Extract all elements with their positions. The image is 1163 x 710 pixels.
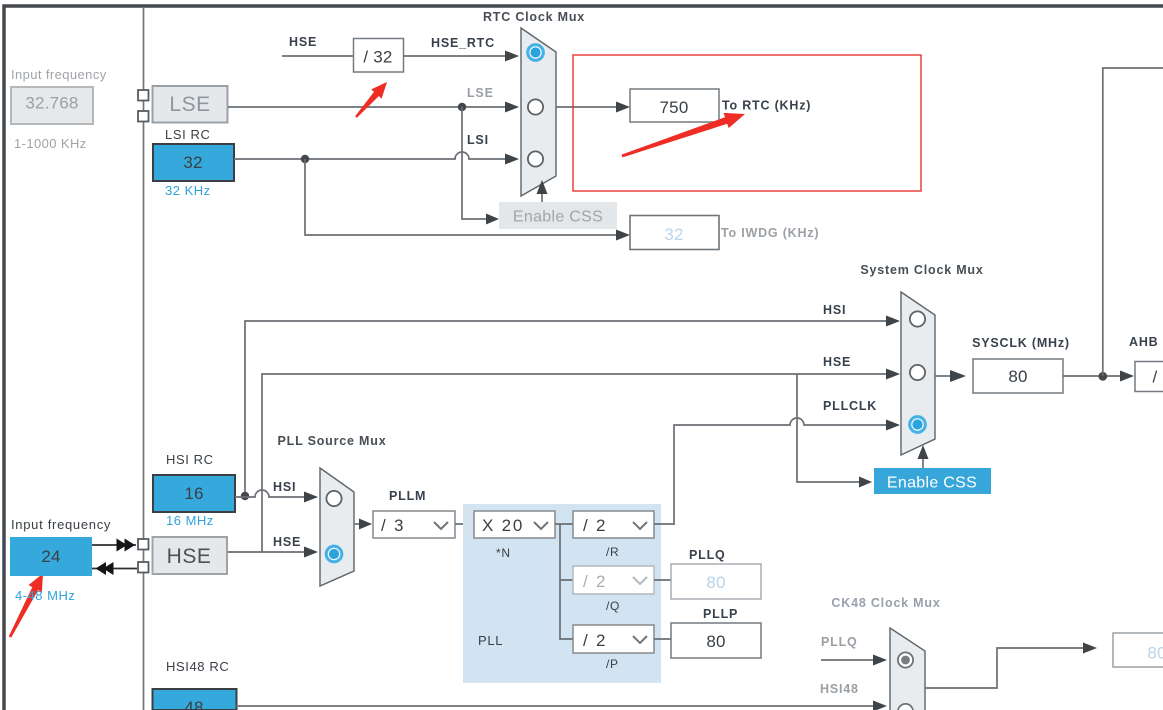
wire SYSCLK branch to top right bbox=[1103, 68, 1163, 376]
wire HSE to System Clock Mux bbox=[262, 369, 900, 553]
box input frequency 32.768 bbox=[11, 87, 93, 124]
svg-text:HSE: HSE bbox=[289, 35, 317, 49]
svg-text:/ 32: / 32 bbox=[363, 48, 392, 67]
input bus line bbox=[143, 8, 145, 710]
svg-text:/ 3: / 3 bbox=[381, 516, 405, 535]
svg-text:HSI48: HSI48 bbox=[820, 682, 859, 696]
svg-text:SYSCLK (MHz): SYSCLK (MHz) bbox=[972, 336, 1070, 350]
box HSI48 48 bbox=[153, 689, 237, 710]
dropdown PLLM /3 bbox=[373, 511, 455, 538]
svg-text:/ 2: / 2 bbox=[583, 631, 607, 650]
svg-text:Enable CSS: Enable CSS bbox=[513, 209, 603, 226]
box PLLP 80 bbox=[671, 623, 761, 658]
wire PLL mux output bbox=[354, 519, 372, 530]
svg-text:Input frequency: Input frequency bbox=[11, 517, 111, 532]
label System Clock Mux bbox=[860, 263, 983, 277]
box LSI 32 bbox=[153, 144, 234, 181]
label PLLQ (ck48) bbox=[821, 635, 858, 649]
box CK48 output 80 bbox=[1113, 633, 1163, 667]
dropdown /P /2 bbox=[573, 625, 654, 653]
svg-text:X 20: X 20 bbox=[482, 516, 524, 535]
svg-text:/Q: /Q bbox=[606, 599, 620, 613]
wire HSE branch to Enable CSS (blue) bbox=[797, 374, 872, 488]
svg-text:LSI: LSI bbox=[467, 133, 489, 147]
label HSI48 (ck48) bbox=[820, 682, 859, 696]
svg-text:HSI: HSI bbox=[273, 480, 296, 494]
svg-text:4-48 MHz: 4-48 MHz bbox=[15, 588, 75, 603]
wire LSI to RTC mux (with hop) bbox=[234, 152, 519, 165]
wire HSE_RTC to RTC mux bbox=[404, 51, 520, 62]
label SYSCLK (MHz) bbox=[972, 336, 1070, 350]
label AHB bbox=[1129, 335, 1158, 349]
wire CK48 output to 48 box bbox=[925, 643, 1097, 689]
svg-text:/ 2: / 2 bbox=[583, 572, 607, 591]
label Input frequency (LSE) bbox=[11, 67, 107, 82]
label RTC Clock Mux bbox=[483, 10, 585, 24]
wire PLLM to xN bbox=[455, 523, 474, 525]
svg-text:RTC Clock Mux: RTC Clock Mux bbox=[483, 10, 585, 24]
svg-text:80: 80 bbox=[1008, 367, 1027, 386]
svg-text:PLLQ: PLLQ bbox=[689, 548, 726, 562]
label LSE (small gray) bbox=[467, 86, 494, 100]
svg-text:80: 80 bbox=[1147, 644, 1163, 663]
wire LSE branch down to Enable CSS bbox=[462, 107, 499, 225]
wire /P to PLLP box bbox=[654, 638, 671, 640]
annotation red arrow 3 (to 24 box) bbox=[9, 574, 43, 638]
box divider /32 bbox=[354, 39, 404, 73]
label HSI (pll mux) bbox=[273, 480, 296, 494]
label HSI48 RC bbox=[166, 659, 229, 674]
port squares LSE bbox=[138, 90, 149, 122]
button Enable CSS (blue) bbox=[874, 468, 991, 494]
annotation red rectangle bbox=[573, 55, 921, 191]
button Enable CSS (RTC, disabled) bbox=[499, 202, 617, 229]
box SYSCLK 80 bbox=[973, 359, 1063, 393]
svg-text:80: 80 bbox=[706, 632, 725, 651]
label PLLM bbox=[389, 489, 426, 503]
svg-text:LSE: LSE bbox=[467, 86, 494, 100]
wire PLLCLK to System Clock Mux (with hop) bbox=[674, 418, 900, 525]
svg-text:*N: *N bbox=[496, 546, 511, 560]
svg-text:PLLM: PLLM bbox=[389, 489, 426, 503]
dropdown /Q /2 (disabled) bbox=[573, 566, 654, 594]
wire HSI to System Clock Mux bbox=[241, 316, 900, 501]
wire HSI48 to CK48 mux bbox=[236, 701, 887, 710]
wire port to 24 (double arrow left) bbox=[92, 562, 137, 575]
label /P bbox=[606, 657, 619, 671]
mux PLL Source Mux bbox=[320, 468, 354, 586]
dropdown /R /2 bbox=[573, 511, 654, 538]
wire LSE to RTC mux bbox=[228, 102, 519, 113]
svg-text:Input frequency: Input frequency bbox=[11, 67, 107, 82]
wire SYSCLK output bbox=[935, 370, 966, 382]
svg-text:16 MHz: 16 MHz bbox=[166, 513, 214, 528]
panel PLL (light blue) bbox=[463, 504, 661, 683]
svg-text:HSE: HSE bbox=[167, 545, 212, 568]
wire LSI branch to IWDG bbox=[305, 159, 630, 241]
svg-text:32 KHz: 32 KHz bbox=[165, 183, 211, 198]
label PLLCLK bbox=[823, 399, 877, 413]
svg-text:/R: /R bbox=[606, 545, 619, 559]
label 16 MHz bbox=[166, 513, 214, 528]
svg-text:To RTC (KHz): To RTC (KHz) bbox=[722, 99, 811, 113]
annotation red arrow 2 (to To RTC) bbox=[622, 113, 746, 157]
svg-text:32.768: 32.768 bbox=[25, 94, 78, 113]
label /Q bbox=[606, 599, 620, 613]
box HSE bbox=[153, 537, 228, 574]
svg-text:To IWDG (KHz): To IWDG (KHz) bbox=[721, 226, 819, 240]
svg-text:PLLCLK: PLLCLK bbox=[823, 399, 877, 413]
label PLL bbox=[478, 633, 503, 648]
wire HSI to PLL mux (with hop) bbox=[235, 490, 318, 503]
label PLLQ bbox=[689, 548, 726, 562]
label Input frequency (HSE) bbox=[11, 517, 111, 532]
box input frequency 24 bbox=[10, 537, 92, 576]
wire Enable CSS up-arrow to RTC mux bbox=[537, 180, 548, 202]
wire RTC mux output to 750 bbox=[556, 102, 630, 113]
wire HSE to /32 bbox=[282, 55, 354, 57]
annotation red arrow 1 (to /32 box) bbox=[355, 82, 387, 118]
box To RTC 750 bbox=[630, 89, 719, 122]
label HSI (sys mux) bbox=[823, 303, 846, 317]
label To IWDG (KHz) bbox=[721, 226, 819, 240]
svg-text:LSI RC: LSI RC bbox=[165, 127, 211, 142]
svg-text:HSI: HSI bbox=[823, 303, 846, 317]
label *N bbox=[496, 546, 511, 560]
box HSI 16 bbox=[153, 475, 235, 512]
label HSE_RTC bbox=[431, 36, 495, 50]
wire Enable CSS up-arrow to sys mux bbox=[918, 445, 929, 468]
box PLLQ 80 (disabled) bbox=[671, 564, 761, 599]
svg-text:System Clock Mux: System Clock Mux bbox=[860, 263, 983, 277]
label HSE (sys mux) bbox=[823, 355, 851, 369]
wire PLLQ to CK48 mux bbox=[821, 655, 887, 666]
svg-text:32: 32 bbox=[183, 153, 202, 172]
svg-text:HSE: HSE bbox=[823, 355, 851, 369]
label CK48 Clock Mux bbox=[831, 596, 940, 610]
port squares HSE bbox=[138, 539, 149, 573]
label HSE (pll mux) bbox=[273, 535, 301, 549]
svg-text:/ 2: / 2 bbox=[583, 516, 607, 535]
label To RTC (KHz) bbox=[722, 99, 811, 113]
mux System Clock Mux bbox=[901, 292, 935, 455]
dropdown xN X20 bbox=[474, 511, 555, 538]
svg-text:PLL Source Mux: PLL Source Mux bbox=[278, 434, 387, 448]
mux RTC Clock Mux bbox=[521, 28, 556, 196]
box LSE bbox=[153, 86, 228, 123]
svg-text:/P: /P bbox=[606, 657, 619, 671]
svg-text:32: 32 bbox=[664, 225, 683, 244]
wire /R output up to PLLCLK bbox=[654, 523, 674, 525]
svg-text:16: 16 bbox=[184, 484, 203, 503]
label 32 KHz bbox=[165, 183, 211, 198]
label 4-48 MHz bbox=[15, 588, 75, 603]
svg-text:750: 750 bbox=[660, 98, 689, 117]
svg-text:HSE: HSE bbox=[273, 535, 301, 549]
svg-text:PLL: PLL bbox=[478, 633, 503, 648]
svg-text:Enable CSS: Enable CSS bbox=[887, 475, 977, 492]
svg-text:HSI RC: HSI RC bbox=[166, 452, 214, 467]
wire /Q to PLLQ box bbox=[654, 579, 671, 581]
label LSI RC bbox=[165, 127, 211, 142]
svg-text:LSE: LSE bbox=[169, 93, 210, 116]
label PLL Source Mux bbox=[278, 434, 387, 448]
mux CK48 Clock Mux bbox=[890, 628, 925, 710]
svg-text:/ 1: / 1 bbox=[1153, 368, 1163, 387]
label 1-1000 KHz bbox=[14, 136, 87, 151]
wire xN to dividers bbox=[555, 524, 573, 639]
svg-text:1-1000 KHz: 1-1000 KHz bbox=[14, 136, 87, 151]
svg-text:80: 80 bbox=[706, 573, 725, 592]
svg-text:CK48 Clock Mux: CK48 Clock Mux bbox=[831, 596, 940, 610]
box AHB prescaler bbox=[1135, 362, 1163, 392]
wire SYSCLK to AHB bbox=[1063, 371, 1134, 382]
label HSI RC bbox=[166, 452, 214, 467]
label LSI bbox=[467, 133, 489, 147]
label PLLP bbox=[703, 607, 738, 621]
svg-text:48: 48 bbox=[184, 698, 203, 710]
svg-text:PLLQ: PLLQ bbox=[821, 635, 858, 649]
svg-text:HSE_RTC: HSE_RTC bbox=[431, 36, 495, 50]
svg-text:AHB: AHB bbox=[1129, 335, 1158, 349]
svg-text:PLLP: PLLP bbox=[703, 607, 738, 621]
wire 24 to port (double arrow right) bbox=[92, 539, 136, 552]
label /R bbox=[606, 545, 619, 559]
wire HSE to PLL mux bbox=[228, 547, 318, 558]
svg-text:HSI48 RC: HSI48 RC bbox=[166, 659, 229, 674]
label HSE (top) bbox=[289, 35, 317, 49]
svg-text:24: 24 bbox=[41, 547, 60, 566]
box To IWDG 32 bbox=[630, 216, 719, 250]
